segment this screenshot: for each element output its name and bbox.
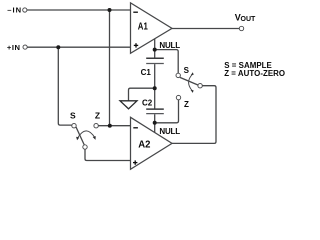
svg-text:–IN: –IN <box>7 5 22 14</box>
svg-text:C1: C1 <box>141 68 152 77</box>
svg-text:NULL: NULL <box>159 127 180 136</box>
svg-text:NULL: NULL <box>159 41 180 50</box>
svg-text:S: S <box>184 66 190 75</box>
svg-text:+IN: +IN <box>7 43 21 52</box>
svg-text:S: S <box>70 111 76 121</box>
svg-text:A1: A1 <box>138 22 148 33</box>
svg-text:C2: C2 <box>142 99 153 108</box>
svg-text:A2: A2 <box>138 140 151 151</box>
svg-text:Z = AUTO-ZERO: Z = AUTO-ZERO <box>224 69 285 78</box>
svg-text:Z: Z <box>95 111 100 121</box>
svg-text:Z: Z <box>184 100 189 109</box>
svg-text:OUT: OUT <box>241 16 257 23</box>
